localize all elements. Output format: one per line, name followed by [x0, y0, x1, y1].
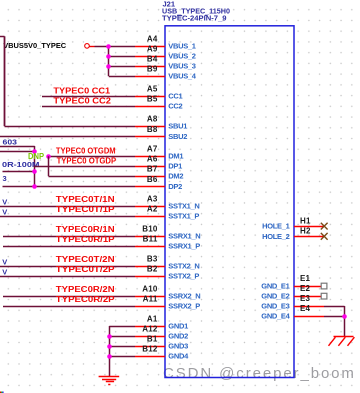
- svg-text:VBUS_1: VBUS_1: [168, 42, 196, 51]
- wire OTGDP vertical: [34, 146, 36, 186]
- svg-text:CC2: CC2: [168, 102, 182, 111]
- wire OTGDM to DM1: [49, 156, 136, 158]
- svg-text:B5: B5: [147, 95, 158, 104]
- svg-text:A3: A3: [147, 195, 158, 204]
- pin B2 SSTX2_P: [135, 276, 165, 278]
- pin E2 GND_E2: [294, 296, 321, 298]
- no-connect X on H2: [321, 233, 328, 240]
- svg-text:TYPEC0T/1N: TYPEC0T/1N: [56, 195, 115, 204]
- wire SSRX2_N: [3, 296, 135, 298]
- pin A2 SSTX1_P: [135, 216, 165, 218]
- wire into node at 151.5: [0, 151, 35, 153]
- svg-text:B10: B10: [142, 225, 158, 234]
- svg-text:V: V: [2, 207, 7, 216]
- pin A6 DP1: [135, 166, 165, 168]
- junction VBUS A4: [106, 44, 111, 49]
- svg-text:TYPEC-24PIN-7_9: TYPEC-24PIN-7_9: [162, 14, 227, 23]
- pin B1 GND3: [135, 346, 165, 348]
- svg-text:GND3: GND3: [168, 342, 188, 351]
- pin A3 SSTX1_N: [135, 206, 165, 208]
- pin A8 SBU1: [135, 126, 165, 128]
- pin H2 HOLE_2: [294, 236, 324, 238]
- svg-text:GND_E1: GND_E1: [261, 282, 289, 291]
- overbar on E: [177, 15, 182, 17]
- svg-text:VBUS_4: VBUS_4: [168, 72, 197, 81]
- wire GND_E3: [324, 306, 345, 308]
- corner artifact pixels: [0, 392, 4, 393]
- svg-text:V: V: [2, 257, 7, 266]
- pin B8 SBU2: [135, 136, 165, 138]
- pin A11 SSRX2_P: [135, 306, 165, 308]
- svg-text:SSRX1_N: SSRX1_N: [168, 232, 200, 241]
- svg-text:A2: A2: [147, 205, 158, 214]
- svg-text:TYPEC0R/2P: TYPEC0R/2P: [56, 295, 116, 304]
- svg-text:TYPEC0 CC1: TYPEC0 CC1: [53, 87, 110, 96]
- wire left entry node 171.5: [3, 171, 35, 173]
- junction node 151.5: [32, 149, 37, 154]
- wire VBUS stub to junction: [95, 46, 136, 48]
- svg-text:SBU1: SBU1: [168, 122, 187, 131]
- svg-text:A11: A11: [143, 295, 158, 304]
- svg-text:SSTX2_P: SSTX2_P: [168, 272, 199, 281]
- wire SSRX1_N: [3, 236, 135, 238]
- wire CC1: [42, 96, 135, 98]
- pin B6 DP2: [135, 186, 165, 188]
- pin B4 VBUS_3: [135, 66, 165, 68]
- svg-text:TYPEC0 OTGDP: TYPEC0 OTGDP: [57, 156, 117, 165]
- svg-text:A1: A1: [147, 315, 158, 324]
- pin B12 GND4: [135, 356, 165, 358]
- wire GND_E vertical: [344, 306, 346, 337]
- wire GND vertical: [109, 326, 111, 376]
- svg-text:TYPEC0T/2P: TYPEC0T/2P: [56, 265, 116, 274]
- junction GND3: [107, 344, 112, 349]
- svg-text:B4: B4: [147, 55, 158, 64]
- svg-text:B1: B1: [147, 335, 158, 344]
- wire SBU1 left vertical: [4, 36, 6, 126]
- wire VBUS_3 branch: [109, 66, 135, 68]
- svg-text:E3: E3: [300, 294, 311, 303]
- wire SSRX2_P: [3, 306, 135, 308]
- svg-text:TYPEC0 OTGDM: TYPEC0 OTGDM: [56, 146, 116, 155]
- pin A4 VBUS_1: [135, 46, 165, 48]
- junction node 171.5: [32, 169, 37, 174]
- pin E3 GND_E3: [294, 306, 324, 308]
- terminal square E2: [321, 293, 327, 299]
- pin B7 DM2: [135, 176, 165, 178]
- pin B11 SSRX1_P: [135, 246, 165, 248]
- svg-text:SSTX1_P: SSTX1_P: [168, 212, 199, 221]
- svg-text:GND1: GND1: [168, 322, 188, 331]
- svg-text:GND_E3: GND_E3: [261, 302, 289, 311]
- svg-text:B11: B11: [143, 235, 158, 244]
- svg-text:A12: A12: [142, 325, 158, 334]
- junction GND4: [107, 354, 112, 359]
- svg-text:SSRX2_P: SSRX2_P: [168, 302, 200, 311]
- svg-text:GND2: GND2: [168, 332, 188, 341]
- pin A5 CC1: [135, 96, 165, 98]
- svg-text:TYPEC0T/1P: TYPEC0T/1P: [56, 205, 116, 214]
- svg-text:A5: A5: [147, 85, 158, 94]
- svg-text:SSTX2_N: SSTX2_N: [168, 262, 199, 271]
- wire from 0603 resistor: [0, 146, 35, 148]
- connector J21 body: [165, 26, 294, 378]
- junction OTGDM: [46, 154, 51, 159]
- power port circle: [85, 44, 90, 49]
- svg-text:603: 603: [3, 138, 18, 147]
- svg-text:GND_E2: GND_E2: [261, 292, 289, 301]
- pin B9 VBUS_4: [135, 76, 165, 78]
- wire SBU1 left entry top: [0, 36, 5, 38]
- pin A9 VBUS_2: [135, 56, 165, 58]
- svg-text:TYPEC0 CC2: TYPEC0 CC2: [53, 97, 111, 106]
- svg-text:TYPEC0R/1N: TYPEC0R/1N: [56, 225, 115, 234]
- svg-text:B2: B2: [147, 265, 158, 274]
- junction VBUS A9: [106, 54, 111, 59]
- svg-text:H1: H1: [300, 216, 311, 225]
- svg-text:DM2: DM2: [168, 172, 183, 181]
- svg-text:GND_E4: GND_E4: [261, 312, 290, 321]
- svg-text:DP1: DP1: [168, 162, 182, 171]
- pin E1 GND_E1: [294, 286, 321, 288]
- svg-text:A10: A10: [142, 285, 158, 294]
- overbar on I: [205, 15, 208, 17]
- pin A12 GND2: [135, 336, 165, 338]
- svg-text:E4: E4: [300, 304, 311, 313]
- svg-text:H2: H2: [300, 227, 311, 236]
- svg-text:GND4: GND4: [168, 352, 189, 361]
- svg-text:A6: A6: [147, 155, 158, 164]
- svg-text:SSRX1_P: SSRX1_P: [168, 242, 200, 251]
- wire SSTX2_N: [0, 266, 135, 268]
- svg-text:VBUS_2: VBUS_2: [168, 52, 196, 61]
- svg-text:E2: E2: [300, 284, 311, 293]
- svg-text:SSTX1_N: SSTX1_N: [168, 202, 199, 211]
- wire CC2: [42, 106, 135, 108]
- pin A7 DM1: [135, 156, 165, 158]
- svg-text:HOLE_2: HOLE_2: [262, 232, 290, 241]
- svg-text:VBUS5V0_TYPEC: VBUS5V0_TYPEC: [3, 41, 67, 50]
- pin B5 CC2: [135, 106, 165, 108]
- wire GND2: [109, 336, 135, 338]
- svg-text:V: V: [2, 267, 7, 276]
- svg-text:3: 3: [3, 174, 7, 183]
- wire VBUS vertical: [108, 46, 110, 76]
- pin E4 GND_E4: [294, 316, 324, 318]
- wire to DM2: [49, 176, 136, 178]
- power port stub: [89, 46, 94, 48]
- wire GND_E4: [324, 316, 345, 318]
- svg-text:A9: A9: [147, 45, 158, 54]
- svg-text:SSRX2_N: SSRX2_N: [168, 292, 200, 301]
- wire SBU2: [0, 136, 135, 138]
- ground symbol GND: [99, 377, 120, 385]
- svg-text:SBU2: SBU2: [168, 132, 187, 141]
- wire OTGDP to DP1: [35, 166, 135, 168]
- wire SSTX1_P: [0, 216, 135, 218]
- svg-text:DM1: DM1: [168, 152, 183, 161]
- watermark: [163, 365, 356, 382]
- svg-text:CC1: CC1: [168, 92, 182, 101]
- pin B3 SSTX2_N: [135, 266, 165, 268]
- svg-text:B8: B8: [147, 125, 158, 134]
- junction VBUS B4: [106, 64, 111, 69]
- svg-text:V: V: [2, 197, 7, 206]
- no-connect X on H1: [321, 223, 328, 230]
- wire GND3: [109, 346, 135, 348]
- pin H1 HOLE_1: [294, 226, 324, 228]
- earth ground symbol: [329, 337, 355, 346]
- wire VBUS_2 branch: [109, 56, 135, 58]
- svg-text:B6: B6: [147, 175, 158, 184]
- svg-text:HOLE_1: HOLE_1: [262, 222, 290, 231]
- pin A10 SSRX2_N: [135, 296, 165, 298]
- pin B10 SSRX1_N: [135, 236, 165, 238]
- wire SSTX2_P: [0, 276, 135, 278]
- svg-text:TYPEC0R/2N: TYPEC0R/2N: [56, 285, 115, 294]
- svg-text:A8: A8: [147, 115, 158, 124]
- svg-text:B7: B7: [147, 165, 158, 174]
- pin A1 GND1: [135, 326, 165, 328]
- wire SBU1: [5, 126, 136, 128]
- svg-text:0R-100M: 0R-100M: [2, 160, 40, 169]
- junction GND_E4: [342, 314, 347, 319]
- svg-text:B9: B9: [147, 65, 158, 74]
- svg-text:E1: E1: [300, 274, 311, 283]
- junction DP2: [32, 184, 37, 189]
- wire GND4: [109, 356, 135, 358]
- wire SSTX1_N: [0, 206, 135, 208]
- svg-text:VBUS_3: VBUS_3: [168, 62, 196, 71]
- wire SSRX1_P: [3, 246, 135, 248]
- terminal square E1: [321, 283, 327, 289]
- svg-text:B3: B3: [147, 255, 158, 264]
- svg-text:A4: A4: [147, 35, 158, 44]
- wire VBUS_4 branch: [109, 76, 135, 78]
- svg-text:TYPEC0T/2N: TYPEC0T/2N: [56, 255, 115, 264]
- svg-text:A7: A7: [147, 145, 158, 154]
- svg-text:B12: B12: [142, 345, 158, 354]
- junction GND2: [107, 334, 112, 339]
- svg-text:TYPEC0R/1P: TYPEC0R/1P: [56, 235, 116, 244]
- svg-text:DP2: DP2: [168, 182, 182, 191]
- wire to DP2: [3, 186, 136, 188]
- wire OTGDM vertical: [48, 156, 50, 176]
- wire GND1: [109, 326, 135, 328]
